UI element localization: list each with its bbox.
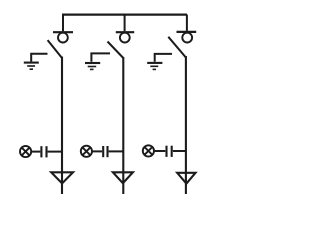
terminal circle (fixed contact) branch 2	[120, 33, 130, 43]
wire: bus drop branch 1	[62, 15, 64, 32]
earth contact wire branch 2	[91, 53, 110, 61]
terminal tick branch 3	[177, 31, 197, 33]
wire: bus drop branch 3	[186, 15, 188, 31]
indicator lamp HL2 (circle with X)	[81, 146, 92, 157]
ground symbol branch 2	[85, 63, 100, 69]
disconnect switch blade S2 (open)	[108, 42, 124, 59]
cable termination triangle branch 1	[51, 172, 73, 183]
wire: lamp to capacitor branch 1	[31, 151, 41, 153]
wire: main vertical branch 2	[122, 57, 124, 194]
cable termination triangle branch 2	[113, 172, 133, 183]
wire: lamp to capacitor branch 3	[154, 150, 166, 152]
wire: capacitor to main line branch 3	[173, 150, 186, 152]
terminal circle (fixed contact) branch 3	[182, 33, 192, 43]
wire: capacitor to main line branch 2	[109, 150, 124, 152]
terminal circle (fixed contact) branch 1	[58, 33, 68, 43]
indicator lamp HL3 (circle with X)	[143, 145, 154, 156]
capacitor C2 (voltage divider)	[103, 146, 107, 157]
wire: lamp to capacitor branch 2	[92, 150, 102, 152]
wire: main vertical branch 1	[61, 57, 63, 195]
wire: capacitor to main line branch 1	[48, 151, 62, 153]
terminal tick branch 1	[53, 31, 73, 33]
indicator lamp HL1 (circle with X)	[20, 146, 31, 157]
earth contact wire branch 3	[155, 54, 172, 62]
disconnect switch blade S1 (open)	[48, 40, 62, 58]
ground symbol branch 3	[147, 63, 162, 70]
capacitor C3 (voltage divider)	[167, 146, 172, 157]
capacitor C1 (voltage divider)	[41, 146, 46, 157]
earth contact wire branch 1	[31, 54, 47, 62]
disconnect switch blade S3 (open)	[168, 37, 186, 58]
cable termination triangle branch 3	[177, 173, 195, 184]
terminal tick branch 2	[116, 31, 134, 33]
wire: bus drop branch 2	[124, 15, 126, 32]
bus bar (top horizontal wire)	[62, 14, 187, 16]
wire: main vertical branch 3	[185, 56, 187, 194]
ground symbol branch 1	[24, 63, 39, 70]
